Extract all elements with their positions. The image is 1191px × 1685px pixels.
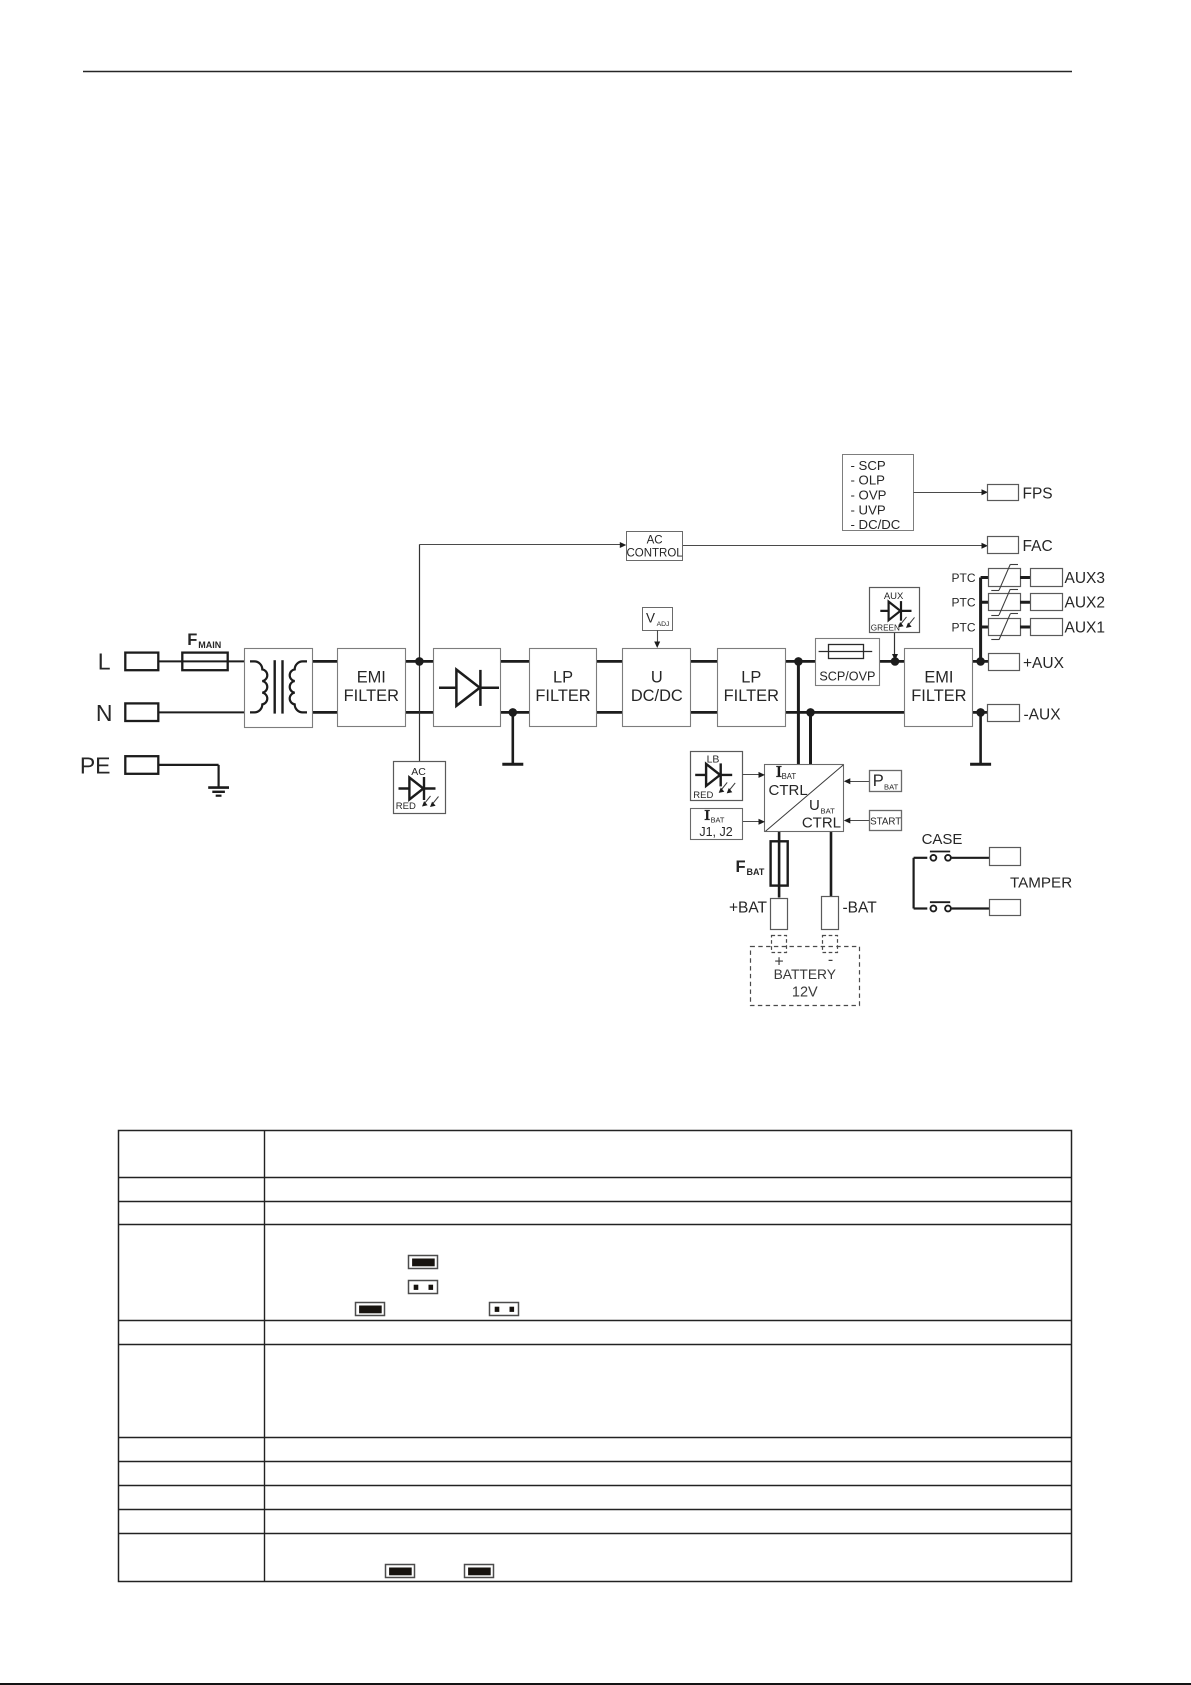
svg-text:CTRL: CTRL [802, 815, 841, 832]
svg-text:SCP/OVP: SCP/OVP [819, 669, 875, 683]
svg-text:+BAT: +BAT [729, 900, 768, 917]
svg-text:AUX3: AUX3 [1065, 570, 1106, 587]
svg-text:AUX1: AUX1 [1065, 619, 1106, 636]
svg-text:PE: PE [80, 752, 111, 778]
svg-text:CASE: CASE [922, 831, 963, 848]
svg-text:BAT: BAT [711, 816, 725, 825]
svg-text:FILTER: FILTER [344, 687, 399, 705]
svg-text:BAT: BAT [884, 782, 899, 791]
svg-text:START: START [870, 816, 901, 827]
svg-text:U: U [651, 669, 663, 687]
svg-text:PTC: PTC [952, 571, 976, 585]
svg-text:L: L [98, 649, 111, 675]
svg-text:EMI: EMI [357, 669, 386, 687]
svg-text:MAIN: MAIN [198, 640, 221, 650]
svg-text:P: P [873, 772, 884, 790]
svg-text:FILTER: FILTER [535, 687, 590, 705]
svg-text:BAT: BAT [782, 772, 797, 781]
svg-text:FAC: FAC [1023, 538, 1053, 555]
svg-text:TAMPER: TAMPER [1010, 874, 1072, 891]
svg-text:J1, J2: J1, J2 [699, 825, 732, 839]
svg-text:U: U [809, 797, 820, 814]
svg-text:FILTER: FILTER [911, 687, 966, 705]
svg-text:-AUX: -AUX [1024, 707, 1062, 724]
svg-text:- OVP: - OVP [851, 488, 887, 503]
svg-text:EMI: EMI [924, 669, 953, 687]
svg-text:V: V [646, 611, 655, 626]
svg-text:CTRL: CTRL [769, 782, 808, 799]
svg-text:AC: AC [411, 766, 426, 778]
svg-text:FILTER: FILTER [724, 687, 779, 705]
svg-text:AC: AC [647, 534, 663, 546]
svg-text:N: N [96, 700, 113, 726]
svg-text:-BAT: -BAT [843, 900, 878, 917]
svg-text:F: F [187, 631, 197, 649]
svg-text:FPS: FPS [1023, 485, 1053, 502]
svg-text:BAT: BAT [747, 867, 765, 877]
svg-text:F: F [736, 858, 746, 876]
svg-text:GREEN: GREEN [871, 623, 900, 632]
svg-text:- UVP: - UVP [851, 502, 886, 517]
svg-text:AUX2: AUX2 [1065, 595, 1106, 612]
svg-text:PTC: PTC [952, 620, 976, 634]
svg-text:LP: LP [553, 669, 573, 687]
svg-text:DC/DC: DC/DC [631, 687, 683, 705]
svg-text:RED: RED [693, 790, 713, 801]
svg-text:ADJ: ADJ [657, 621, 670, 628]
svg-text:LB: LB [707, 753, 720, 765]
svg-text:- SCP: - SCP [851, 458, 886, 473]
svg-text:12V: 12V [792, 985, 818, 1001]
svg-text:+AUX: +AUX [1023, 655, 1065, 672]
svg-text:RED: RED [396, 801, 416, 812]
svg-text:- OLP: - OLP [851, 473, 886, 488]
svg-text:PTC: PTC [952, 596, 976, 610]
svg-text:- DC/DC: - DC/DC [851, 517, 901, 532]
svg-text:LP: LP [741, 669, 761, 687]
svg-text:CONTROL: CONTROL [626, 547, 683, 559]
svg-text:AUX: AUX [884, 591, 904, 602]
svg-text:BATTERY: BATTERY [774, 967, 836, 982]
